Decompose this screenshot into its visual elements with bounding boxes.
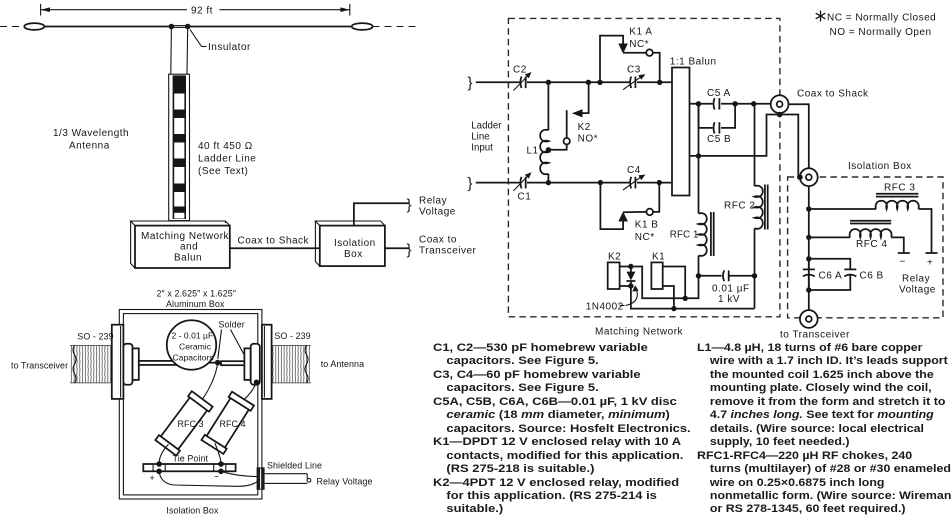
antenna wire right half: [188, 26, 352, 28]
svg-text:K1 A: K1 A: [629, 26, 652, 37]
svg-text:RFC 4: RFC 4: [856, 239, 887, 250]
junction top line at K1A: [597, 80, 602, 85]
svg-text:K2: K2: [608, 252, 621, 263]
wire coax to transceiver: [385, 247, 409, 249]
svg-text:1 kV: 1 kV: [718, 294, 740, 305]
svg-text:Relay: Relay: [902, 274, 930, 285]
junction bottom line at K1B: [598, 180, 603, 185]
junction connector mid left: [797, 174, 803, 180]
junction C5 right: [732, 101, 737, 106]
wire input line top: [476, 81, 520, 83]
wire K1 bottom: [663, 286, 674, 309]
svg-text:2″ x 2.625″ x 1.625″: 2″ x 2.625″ x 1.625″: [157, 289, 237, 299]
choke RFC3: [155, 391, 212, 455]
svg-text:to Transceiver: to Transceiver: [11, 361, 68, 371]
SO-239 right barrel: [272, 345, 311, 383]
svg-text:RFC 3: RFC 3: [178, 419, 204, 429]
svg-text:1N4002: 1N4002: [586, 302, 624, 313]
wire diode top to RFC1 bottom node: [631, 267, 699, 299]
svg-text:Matching Network: Matching Network: [141, 231, 230, 242]
1:1 balun: [670, 56, 717, 195]
junction K1 bottom wire: [671, 306, 676, 311]
wire input line bottom: [476, 182, 520, 184]
matching network and balun box: [131, 221, 230, 268]
svg-text:−: −: [214, 472, 219, 482]
wire lug to RFC4: [241, 382, 257, 403]
svg-text:Isolation Box: Isolation Box: [166, 506, 219, 515]
junction RFC1 bottom: [696, 273, 701, 278]
wire K2 to diode bottom: [620, 285, 631, 287]
capacitor C5A: [707, 88, 731, 110]
coax connector mid: [800, 168, 818, 186]
feed wire right: [186, 27, 189, 75]
SO-239 left body: [123, 344, 132, 385]
svg-text:Isolation: Isolation: [334, 238, 376, 249]
svg-text:SO - 239: SO - 239: [274, 331, 310, 341]
wire shield dot to down line: [780, 115, 800, 178]
wire balun top to connector: [690, 103, 771, 105]
wire RFC3 to tie point: [159, 444, 168, 463]
svg-text:Coax to Shack: Coax to Shack: [238, 236, 310, 247]
svg-text:NC*: NC*: [629, 39, 649, 50]
relay contact K2 NO: [548, 82, 598, 150]
svg-text:L1: L1: [527, 146, 539, 157]
svg-text:1/3 Wavelength: 1/3 Wavelength: [53, 128, 129, 139]
end insulator left: [24, 23, 44, 30]
junction top line at K2: [586, 80, 591, 85]
svg-text:Box: Box: [344, 249, 363, 260]
junction bottom line right of C4: [657, 180, 662, 185]
isolation box (small): [315, 221, 385, 266]
svg-text:}: }: [407, 242, 412, 259]
wire diode bottom to RFC2 bottom: [631, 286, 755, 309]
junction top line right of C3: [657, 80, 662, 85]
svg-text:Insulator: Insulator: [208, 42, 251, 53]
junction diode top: [628, 264, 633, 269]
svg-text:Balun: Balun: [174, 253, 202, 264]
legend NC/NO: [816, 11, 937, 39]
feedpoint junction left: [169, 24, 175, 30]
svg-text:RFC 1: RFC 1: [670, 230, 699, 241]
relay contact K1B NC: [600, 183, 659, 243]
wire connector1 right: [789, 104, 809, 168]
svg-text:C2: C2: [513, 65, 527, 76]
svg-text:2 - 0.01 µF: 2 - 0.01 µF: [172, 331, 214, 341]
svg-text:Ceramic: Ceramic: [179, 342, 212, 352]
label ladder line input: [471, 121, 502, 154]
junction C6 bottom: [806, 287, 811, 292]
svg-text:to Transceiver: to Transceiver: [780, 330, 850, 341]
wire RFC2 bottom: [754, 228, 756, 308]
wire balun mid to connector shield: [690, 115, 780, 156]
junction RFC3: [806, 206, 811, 211]
svg-text:K1: K1: [652, 252, 665, 263]
coax connector to transceiver: [800, 310, 818, 328]
svg-text:Coax to: Coax to: [419, 234, 457, 245]
variable capacitor C4: [623, 165, 645, 190]
svg-text:+: +: [927, 258, 933, 269]
svg-text:RFC 4: RFC 4: [220, 419, 246, 429]
wire vertical to RFC1: [698, 104, 700, 214]
wire K2 to diode top: [620, 266, 631, 268]
svg-text:Aluminum Box: Aluminum Box: [166, 299, 225, 309]
svg-text:Input: Input: [471, 143, 493, 154]
svg-text:K2: K2: [578, 122, 591, 133]
wire RFC4 to tie point: [215, 443, 221, 463]
SO-239 right body: [244, 348, 250, 380]
svg-text:Relay Voltage: Relay Voltage: [317, 477, 373, 487]
ladder line drawing: [169, 74, 190, 220]
svg-text:−: −: [900, 257, 906, 268]
junction C6 top: [806, 256, 811, 261]
junction connector shield: [777, 112, 783, 118]
tie point junctions: [156, 461, 162, 467]
svg-text:RFC 2: RFC 2: [724, 201, 755, 212]
variable capacitor C1: [514, 172, 532, 202]
solder junction left: [215, 360, 221, 366]
svg-text:Coax to Shack: Coax to Shack: [797, 89, 869, 100]
L1 tap junction: [546, 147, 551, 152]
svg-text:Voltage: Voltage: [899, 285, 936, 296]
capacitor C5B: [707, 122, 731, 145]
svg-text:NC*: NC*: [635, 232, 655, 243]
choke RFC3: [809, 183, 938, 269]
svg-text:C6 B: C6 B: [860, 271, 884, 282]
svg-text:Solder: Solder: [219, 319, 245, 329]
wire K1 top: [663, 267, 686, 299]
svg-text:40 ft 450 Ω: 40 ft 450 Ω: [198, 141, 253, 152]
capacitor balloon: [167, 320, 216, 369]
relay contact K1A NC: [600, 26, 660, 82]
junction diode bottom: [628, 283, 633, 288]
svg-text:C3: C3: [627, 65, 641, 76]
antenna wire left half: [43, 26, 171, 28]
svg-text:SO - 239: SO - 239: [77, 332, 113, 342]
label 1N4002 with arrow: [586, 285, 639, 312]
junction top line at L1: [546, 80, 551, 85]
svg-text:RFC 3: RFC 3: [884, 183, 915, 194]
svg-text:Shielded Line: Shielded Line: [267, 460, 322, 470]
svg-text:Isolation Box: Isolation Box: [848, 161, 912, 172]
svg-text:Capacitors: Capacitors: [173, 353, 214, 363]
junction RFC2 top: [751, 101, 756, 106]
svg-text:(See Text): (See Text): [198, 166, 248, 177]
diode 1N4002: [626, 267, 635, 287]
junction cap right: [752, 273, 757, 278]
svg-text:Ladder Line: Ladder Line: [198, 154, 256, 165]
svg-text:+: +: [150, 473, 155, 483]
variable capacitor C2: [513, 65, 532, 91]
svg-text:to Antenna: to Antenna: [321, 359, 364, 369]
center pin wire left: [139, 361, 196, 365]
svg-text:92 ft: 92 ft: [191, 5, 213, 16]
svg-text:Tie Point: Tie Point: [173, 454, 209, 464]
svg-text:Relay: Relay: [419, 196, 447, 207]
wire C5B branch: [699, 104, 736, 128]
junction RFC4: [806, 235, 811, 240]
variable capacitor C3: [623, 65, 645, 90]
capacitor 0.01uF 1kV: [699, 270, 755, 305]
svg-text:C5 A: C5 A: [707, 88, 731, 99]
relay coil K1: [651, 252, 665, 290]
wire RFC2 top: [754, 104, 756, 186]
svg-text:}: }: [468, 75, 473, 92]
center pin wire right: [221, 361, 244, 365]
end insulator right: [352, 23, 373, 30]
junction C5 left: [696, 101, 701, 106]
svg-text:Matching Network: Matching Network: [595, 327, 684, 338]
insulator callout: [190, 30, 251, 54]
choke RFC4: [201, 392, 254, 454]
SO-239 left flange: [112, 325, 124, 399]
svg-text:C5 B: C5 B: [707, 134, 731, 145]
wire plus to shielded line: [159, 471, 257, 486]
svg-text:K1 B: K1 B: [635, 220, 659, 231]
svg-text:NC = Normally Closed: NC = Normally Closed: [827, 13, 936, 24]
guy rope dashed right: [373, 26, 421, 28]
SO-239 right flange: [262, 325, 272, 399]
solder callout lines: [218, 330, 222, 360]
svg-text:Antenna: Antenna: [69, 141, 110, 152]
SO-239 left barrel: [70, 345, 112, 383]
junction balun mid: [696, 153, 701, 158]
svg-text:Transceiver: Transceiver: [419, 245, 477, 256]
junction bottom line at L1: [546, 180, 551, 185]
feedpoint junction right: [185, 24, 191, 30]
guy rope dashed left: [0, 26, 25, 28]
svg-text:Ladder: Ladder: [471, 121, 502, 132]
isolation box dashed enclosure: [788, 177, 943, 318]
choke RFC2: [724, 185, 768, 230]
main vertical to transceiver: [808, 186, 810, 310]
solder junction right (ground lug): [254, 380, 260, 386]
svg-text:C1: C1: [518, 192, 532, 203]
relay coil K2: [608, 252, 622, 290]
inductor L1: [527, 82, 549, 182]
dimension line 92 ft: [41, 4, 350, 17]
tie point bar: [143, 464, 235, 471]
shielded line cable: [265, 474, 311, 484]
svg-text:}: }: [468, 175, 473, 192]
svg-text:NO*: NO*: [578, 134, 598, 145]
coax connector to shack: [771, 89, 869, 114]
svg-text:Voltage: Voltage: [419, 207, 456, 218]
junction K1 top wire: [683, 296, 688, 301]
svg-text:NO = Normally Open: NO = Normally Open: [830, 27, 932, 38]
shielded line feedthrough: [257, 468, 264, 489]
svg-text:1:1 Balun: 1:1 Balun: [670, 56, 717, 67]
svg-text:}: }: [407, 197, 412, 214]
svg-text:C6 A: C6 A: [819, 271, 843, 282]
wire pin to RFC3: [200, 363, 218, 403]
svg-text:and: and: [180, 242, 198, 253]
matching network dashed enclosure: [508, 18, 780, 316]
component caption text, left column: [433, 342, 771, 515]
wire minus to shielded line: [221, 471, 257, 476]
capacitor C6B: [809, 259, 884, 290]
choke RFC4: [809, 221, 910, 268]
center insulator: [174, 26, 187, 28]
wire relay voltage: [354, 203, 409, 225]
svg-text:Line: Line: [471, 132, 489, 143]
svg-text:C4: C4: [627, 165, 641, 176]
component caption text, right column: [697, 342, 951, 515]
feed wire left: [170, 27, 173, 75]
aluminum box outline: [119, 310, 262, 500]
wire RFC1 bottom: [698, 256, 700, 276]
capacitor C6A: [803, 259, 842, 290]
wire coax to shack: [230, 247, 320, 249]
choke RFC1: [670, 212, 714, 256]
